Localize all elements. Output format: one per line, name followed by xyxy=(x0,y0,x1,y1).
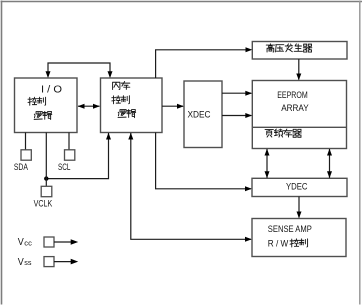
wire VCLK net to memory-control xyxy=(46,133,111,179)
block U5 EEPROM ARRAY with page latch (页锁存器) xyxy=(252,81,346,149)
junction dot VCLK net xyxy=(44,176,48,180)
label Vss xyxy=(18,257,32,268)
block U1 I/O control logic (I/O 控制 逻辑) xyxy=(15,78,78,133)
wire XDEC to EEPROM array (upper) xyxy=(222,91,252,96)
svg-text:V: V xyxy=(18,237,24,248)
wire I/O to VCLK pad xyxy=(45,133,47,187)
label VCLK xyxy=(34,198,53,209)
block U3 XDEC row decoder xyxy=(184,81,222,148)
wire XDEC to EEPROM array (lower) xyxy=(222,113,252,118)
wire YDEC to SENSE AMP xyxy=(297,197,302,219)
svg-text:V: V xyxy=(18,257,24,268)
block U2 memory control logic (内存 控制 逻辑) xyxy=(101,78,163,133)
wire I/O <-> memory-control bidirectional bus xyxy=(78,104,100,109)
svg-text:ss: ss xyxy=(24,258,31,267)
pin pad SDA xyxy=(21,150,31,160)
wire Vcc supply arrow xyxy=(54,239,78,245)
pin pad SCL xyxy=(65,150,75,160)
wire memory-control to YDEC xyxy=(156,133,252,192)
pin pad VCLK xyxy=(41,186,52,196)
label SCL xyxy=(58,161,71,172)
wire I/O to SCL pad xyxy=(68,133,70,150)
svg-text:EEPROM: EEPROM xyxy=(277,90,308,101)
wire page-latch <-> YDEC right (bidirectional) xyxy=(327,149,332,178)
svg-text:VCLK: VCLK xyxy=(34,198,53,209)
wire memory-control to high-voltage generator xyxy=(156,47,253,78)
block U4 high-voltage generator (高压发生器) xyxy=(252,42,347,60)
wire page-latch <-> YDEC left (bidirectional) xyxy=(265,149,270,178)
wire I/O to SDA pad xyxy=(25,133,27,150)
wire memory-control to XDEC xyxy=(162,104,184,109)
svg-text:YDEC: YDEC xyxy=(286,182,308,193)
label Vcc xyxy=(18,237,32,248)
svg-text:I / O: I / O xyxy=(41,85,62,96)
svg-text:SCL: SCL xyxy=(58,161,71,172)
svg-text:R / W: R / W xyxy=(268,238,289,249)
wire high-voltage generator to EEPROM array xyxy=(296,59,301,80)
wire I/O-top to memory-top (clock/handshake) xyxy=(46,63,113,78)
svg-text:SENSE AMP: SENSE AMP xyxy=(268,224,312,235)
svg-text:SDA: SDA xyxy=(14,161,29,172)
block U7 SENSE AMP / R-W control (SENSE AMP R/W控制) xyxy=(252,219,346,257)
block U6 YDEC column decoder xyxy=(252,178,347,196)
svg-text:ARRAY: ARRAY xyxy=(281,103,309,114)
pin pad Vcc xyxy=(44,237,54,247)
pin pad Vss xyxy=(44,257,54,267)
svg-text:XDEC: XDEC xyxy=(188,110,211,121)
wire Vss supply arrow xyxy=(54,259,78,265)
wire memory-control <-> SENSE AMP (R/W) xyxy=(128,133,252,242)
label SDA xyxy=(14,161,29,172)
svg-text:cc: cc xyxy=(24,238,32,247)
